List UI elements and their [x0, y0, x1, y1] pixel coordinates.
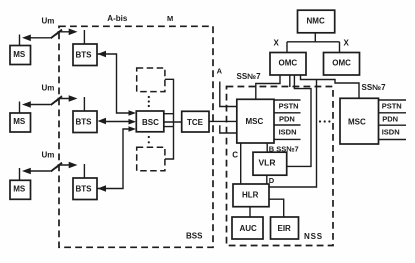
antenna MS3 — [19, 168, 21, 180]
svg-text:A: A — [217, 67, 223, 76]
svg-text:Um: Um — [42, 84, 55, 93]
wire BTS2 to BSC — [103, 121, 131, 123]
wire TCE to MSC1 (A interface) — [209, 120, 237, 122]
dashed spare box above BSC — [137, 68, 165, 92]
radio link arrow Um1 — [26, 32, 75, 38]
antenna MS1 — [19, 35, 21, 46]
antenna BTS1 — [83, 30, 85, 44]
PSTN stack lines MSC1 — [274, 100, 301, 139]
dots ellipsis between networks — [319, 120, 321, 122]
arrowhead Um3 left — [22, 168, 31, 175]
arrowhead Um2 left — [22, 101, 31, 108]
svg-text:MSC: MSC — [348, 117, 366, 126]
svg-text:M: M — [167, 14, 173, 23]
box MS1 — [10, 46, 31, 65]
box NMC — [298, 10, 335, 33]
svg-text:BTS: BTS — [76, 51, 93, 60]
wire OMC1 to MSC1 — [220, 75, 280, 133]
svg-text:SS№7: SS№7 — [237, 72, 262, 81]
wire OMC to HLR — [269, 80, 317, 188]
wire MSC1 to HLR (C interface) — [240, 143, 242, 184]
svg-text:PSTN: PSTN — [382, 101, 402, 110]
wire OMC1 to VLR (b) — [287, 75, 311, 166]
box BSC — [136, 111, 164, 132]
svg-text:MS: MS — [13, 185, 26, 194]
svg-text:BTS: BTS — [76, 185, 93, 194]
svg-text:MS: MS — [13, 50, 26, 59]
box BTS3 — [73, 178, 97, 200]
box MS2 — [10, 113, 31, 132]
svg-text:OMC: OMC — [279, 58, 298, 67]
svg-text:A-bis: A-bis — [107, 14, 128, 23]
wire HLR to AUC — [249, 207, 251, 218]
arrowhead Um1 left — [22, 35, 31, 42]
svg-text:PSTN: PSTN — [279, 101, 299, 110]
wire VLR to HLR (D interface) — [266, 175, 268, 184]
wire NMC to OMCs — [287, 33, 340, 53]
svg-text:D: D — [269, 176, 275, 185]
box BTS1 — [73, 44, 97, 66]
svg-text:AUC: AUC — [240, 224, 258, 233]
radio link arrow Um2 — [26, 99, 75, 105]
svg-text:NMC: NMC — [307, 17, 325, 26]
dashed spare box below BSC — [137, 147, 165, 171]
box HLR — [233, 184, 269, 207]
radio link arrow Um3 — [26, 165, 75, 171]
svg-text:X: X — [274, 39, 280, 48]
arrowhead Um3 right — [69, 162, 78, 169]
svg-text:Um: Um — [42, 17, 55, 26]
box MSC1 — [237, 99, 274, 143]
svg-text:PDN: PDN — [382, 115, 398, 124]
arrowhead Um1 right — [69, 29, 78, 36]
svg-text:X: X — [344, 39, 350, 48]
svg-text:BSC: BSC — [142, 118, 159, 127]
dots below BSC — [148, 136, 150, 138]
svg-text:PDN: PDN — [279, 115, 295, 124]
svg-text:VLR: VLR — [259, 158, 276, 168]
svg-text:SS№7: SS№7 — [362, 83, 387, 92]
dots above BSC — [148, 96, 150, 98]
PSTN stack lines MSC2 — [378, 100, 406, 140]
svg-text:B SS№7: B SS№7 — [269, 145, 299, 154]
svg-text:EIR: EIR — [278, 224, 292, 233]
box AUC — [232, 217, 263, 239]
arrowhead Um2 right — [69, 95, 78, 102]
svg-text:ISDN: ISDN — [279, 127, 297, 136]
box BTS2 — [73, 111, 97, 133]
arrowhead into BSC bottom — [129, 126, 137, 132]
box MS3 — [10, 180, 31, 199]
svg-text:NSS: NSS — [304, 232, 323, 241]
wire OMC1 to VLR (a) — [289, 75, 291, 87]
box OMC1 — [270, 53, 306, 76]
box EIR — [271, 217, 299, 239]
antenna BTS2 — [83, 97, 85, 111]
svg-text:HLR: HLR — [242, 191, 259, 200]
BSS dashed box — [59, 26, 213, 247]
svg-text:TCE: TCE — [187, 118, 204, 127]
wire BTS3 to BSC — [97, 129, 131, 189]
antenna BTS3 — [83, 164, 85, 178]
NSS dashed box — [227, 87, 334, 246]
antenna MS2 — [19, 102, 21, 114]
wire spare-box bus — [164, 79, 174, 159]
box OMC2 — [324, 53, 360, 76]
svg-text:OMC: OMC — [332, 58, 351, 67]
svg-text:Um: Um — [42, 150, 55, 159]
svg-text:ISDN: ISDN — [382, 127, 400, 136]
svg-text:BSS: BSS — [186, 232, 203, 241]
wire BTS1 to BSC — [97, 54, 131, 113]
box MSC2 — [340, 98, 379, 144]
svg-text:MSC: MSC — [246, 117, 264, 126]
svg-text:BTS: BTS — [76, 118, 93, 127]
arrowhead into BSC mid — [129, 119, 137, 125]
arrowhead into BSC top — [129, 110, 137, 116]
arrowhead into BTS3 — [98, 185, 107, 191]
svg-text:MS: MS — [13, 117, 26, 126]
arrowhead into BTS2 — [98, 118, 107, 124]
box TCE — [182, 111, 209, 132]
wire BSC to TCE — [164, 121, 182, 123]
wire MSC1 to VLR (B interface) — [266, 143, 268, 152]
wire OMC1 to MSC2 — [301, 75, 360, 98]
arrowhead into BTS1 — [98, 51, 107, 57]
svg-text:C: C — [232, 150, 238, 159]
box VLR — [253, 152, 287, 175]
wire HLR to EIR — [269, 199, 284, 217]
